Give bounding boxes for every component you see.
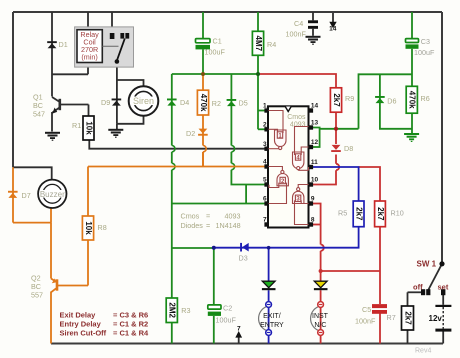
svg-text:Entry Delay: Entry Delay [60, 319, 102, 328]
svg-text:D1: D1 [59, 40, 68, 49]
svg-text:10k: 10k [84, 221, 93, 235]
svg-text:11: 11 [311, 159, 318, 166]
svg-text:= C1 & R2: = C1 & R2 [113, 319, 148, 328]
svg-text:100nF: 100nF [286, 29, 307, 38]
svg-text:4M7: 4M7 [254, 36, 263, 52]
svg-text:557: 557 [31, 290, 43, 299]
svg-text:R1: R1 [72, 121, 81, 130]
svg-text:R2: R2 [212, 99, 221, 108]
svg-text:= C3 & R6: = C3 & R6 [113, 310, 148, 319]
svg-text:=: = [206, 212, 210, 221]
svg-text:2k7: 2k7 [355, 207, 364, 221]
svg-text:4: 4 [263, 159, 267, 166]
svg-text:C4: C4 [294, 19, 303, 28]
svg-text:ENTRY: ENTRY [260, 322, 284, 329]
svg-text:R6: R6 [421, 94, 430, 103]
svg-text:D8: D8 [344, 144, 353, 153]
svg-text:D7: D7 [22, 191, 31, 200]
svg-text:=: = [206, 221, 210, 230]
svg-text:= C1 & R4: = C1 & R4 [113, 329, 149, 338]
svg-text:C1: C1 [213, 36, 222, 45]
svg-text:1: 1 [263, 103, 267, 110]
svg-text:C2: C2 [223, 303, 232, 312]
svg-text:D2: D2 [186, 129, 195, 138]
svg-text:14: 14 [329, 26, 337, 33]
svg-text:100uF: 100uF [205, 48, 226, 57]
svg-text:470k: 470k [408, 91, 417, 109]
svg-text:R5: R5 [338, 209, 347, 218]
svg-text:EXIT/: EXIT/ [263, 313, 281, 320]
svg-text:2M2: 2M2 [168, 302, 177, 318]
svg-text:5: 5 [263, 177, 267, 184]
svg-text:Siren: Siren [133, 96, 154, 106]
svg-text:10k: 10k [85, 121, 94, 135]
svg-text:6: 6 [263, 196, 267, 203]
svg-text:12v: 12v [429, 314, 443, 323]
svg-text:2: 2 [263, 121, 267, 128]
svg-text:R10: R10 [391, 209, 404, 218]
svg-text:Diodes: Diodes [181, 221, 204, 230]
svg-text:R9: R9 [345, 94, 354, 103]
svg-text:100uF: 100uF [216, 316, 237, 325]
svg-text:7: 7 [263, 217, 267, 224]
svg-text:R7: R7 [387, 313, 396, 322]
svg-text:R3: R3 [181, 306, 190, 315]
svg-text:13: 13 [311, 120, 319, 127]
svg-text:100uF: 100uF [414, 48, 435, 57]
svg-text:Rev4: Rev4 [415, 347, 431, 354]
svg-text:off: off [413, 282, 423, 291]
svg-text:8: 8 [311, 217, 315, 224]
svg-text:2k7: 2k7 [403, 311, 412, 325]
svg-text:7: 7 [237, 325, 241, 332]
svg-text:3: 3 [263, 141, 267, 148]
svg-text:Cmos: Cmos [287, 114, 306, 121]
svg-text:100nF: 100nF [355, 317, 376, 326]
svg-text:D9: D9 [101, 98, 110, 107]
svg-text:Buzzer: Buzzer [40, 190, 65, 199]
svg-text:2k7: 2k7 [332, 93, 341, 107]
svg-text:14: 14 [311, 103, 319, 110]
svg-text:C5: C5 [362, 305, 371, 314]
svg-text:C3: C3 [421, 37, 430, 46]
svg-text:2k7: 2k7 [376, 207, 385, 221]
svg-text:SW 1: SW 1 [417, 260, 437, 269]
svg-text:Siren Cut-Off: Siren Cut-Off [60, 329, 107, 338]
svg-text:N/C: N/C [314, 322, 326, 329]
svg-text:Cmos: Cmos [181, 212, 200, 221]
svg-text:547: 547 [33, 110, 45, 119]
svg-text:R8: R8 [98, 223, 107, 232]
svg-text:(min): (min) [81, 52, 97, 61]
svg-text:D6: D6 [387, 96, 396, 105]
svg-text:470k: 470k [199, 94, 208, 112]
svg-text:INST: INST [312, 313, 329, 320]
svg-text:9: 9 [311, 196, 315, 203]
svg-text:4093: 4093 [290, 121, 306, 128]
svg-text:D3: D3 [239, 254, 248, 263]
svg-text:set: set [438, 282, 449, 291]
svg-text:D4: D4 [180, 98, 189, 107]
svg-text:D5: D5 [239, 99, 248, 108]
svg-text:4093: 4093 [225, 212, 241, 221]
svg-text:1N4148: 1N4148 [216, 221, 241, 230]
svg-text:12: 12 [311, 139, 319, 146]
svg-text:Exit Delay: Exit Delay [60, 310, 97, 319]
svg-text:10: 10 [311, 177, 319, 184]
svg-text:R4: R4 [267, 40, 276, 49]
